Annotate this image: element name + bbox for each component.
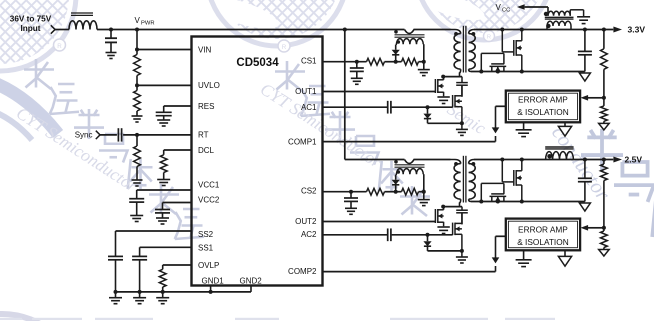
svg-text:UVLO: UVLO xyxy=(198,81,220,90)
svg-text:OUT2: OUT2 xyxy=(295,217,317,226)
svg-text:SS2: SS2 xyxy=(198,230,214,239)
svg-text:RES: RES xyxy=(198,102,214,111)
svg-text:V: V xyxy=(496,3,502,12)
svg-text:VCC1: VCC1 xyxy=(198,181,220,190)
svg-text:Input: Input xyxy=(20,24,40,33)
svg-text:GND2: GND2 xyxy=(240,277,263,286)
svg-text:VCC2: VCC2 xyxy=(198,196,220,205)
svg-text:CS2: CS2 xyxy=(301,187,317,196)
svg-text:ERROR AMP: ERROR AMP xyxy=(518,94,568,104)
svg-text:VIN: VIN xyxy=(198,45,212,54)
svg-text:RT: RT xyxy=(198,130,209,139)
svg-text:Sync: Sync xyxy=(75,131,93,140)
svg-text:ERROR AMP: ERROR AMP xyxy=(518,224,568,234)
svg-text:CC: CC xyxy=(502,7,510,13)
svg-text:OVLP: OVLP xyxy=(198,261,219,270)
svg-text:R: R xyxy=(57,43,62,50)
svg-text:& ISOLATION: & ISOLATION xyxy=(517,107,568,117)
svg-text:36V to 75V: 36V to 75V xyxy=(10,15,52,24)
svg-text:OUT1: OUT1 xyxy=(295,87,317,96)
svg-text:R: R xyxy=(487,35,491,41)
svg-text:V: V xyxy=(135,16,141,25)
svg-text:PWR: PWR xyxy=(141,20,155,26)
svg-text:3.3V: 3.3V xyxy=(628,25,646,35)
svg-text:R: R xyxy=(282,44,287,51)
svg-text:CS1: CS1 xyxy=(301,57,317,66)
svg-text:& ISOLATION: & ISOLATION xyxy=(517,237,568,247)
svg-text:DCL: DCL xyxy=(198,146,215,155)
svg-text:AC2: AC2 xyxy=(301,230,317,239)
svg-text:SS1: SS1 xyxy=(198,243,214,252)
svg-text:2.5V: 2.5V xyxy=(625,155,643,165)
svg-text:COMP1: COMP1 xyxy=(288,137,317,146)
svg-text:GND1: GND1 xyxy=(202,277,225,286)
svg-text:AC1: AC1 xyxy=(301,103,317,112)
svg-text:CD5034: CD5034 xyxy=(236,57,279,69)
svg-text:COMP2: COMP2 xyxy=(288,267,317,276)
